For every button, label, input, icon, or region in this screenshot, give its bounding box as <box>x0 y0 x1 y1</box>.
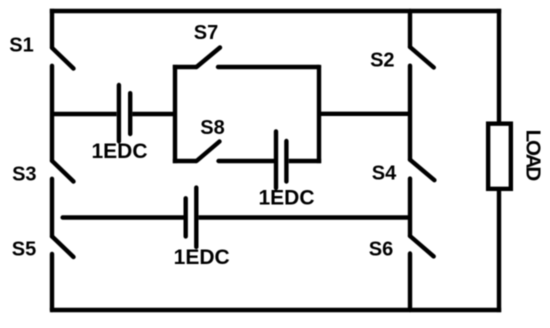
wire bottom rail <box>50 308 501 312</box>
switch S4 blade <box>410 160 434 181</box>
svg-text:S4: S4 <box>372 163 397 185</box>
capacitor C3 plate short <box>183 198 187 236</box>
switch S2 blade <box>410 47 434 68</box>
wire S8 branch right segment (capacitor to loop) <box>289 159 321 163</box>
wire S2 column upper (top rail to S2) <box>408 11 412 47</box>
wire S7 branch right segment <box>218 65 319 69</box>
switch S8 blade <box>197 142 220 162</box>
wire column lower (S6 to bottom rail) <box>408 254 412 311</box>
capacitor C2 plate long <box>274 131 278 188</box>
wire S7 branch left segment <box>173 65 197 69</box>
svg-text:1EDC: 1EDC <box>258 187 314 210</box>
switch S7 blade <box>197 48 221 68</box>
wire S8 branch middle segment (to capacitor) <box>219 159 274 163</box>
wire capacitor C1 to middle loop <box>132 112 175 116</box>
switch S3 blade <box>52 161 74 182</box>
capacitor C1 plate short <box>128 93 132 134</box>
wire left rail to capacitor C1 <box>52 112 117 116</box>
wire column between S4 and S6 <box>408 179 412 236</box>
svg-text:S1: S1 <box>9 35 33 57</box>
switch S6 blade <box>410 236 434 256</box>
svg-text:S5: S5 <box>12 238 36 260</box>
wire right rail lower (LOAD to bottom) <box>497 189 501 312</box>
switch S5 blade <box>52 236 74 257</box>
wire column between S2 and S4 <box>408 66 412 160</box>
resistor LOAD box <box>488 124 511 189</box>
wire middle loop output tap to S2 column <box>319 112 410 116</box>
wire middle loop right vertical <box>317 65 321 163</box>
capacitor C2 plate short <box>284 141 288 182</box>
wire left rail lower (S5 to bottom) <box>50 254 54 310</box>
svg-text:S2: S2 <box>370 50 394 72</box>
svg-text:LOAD: LOAD <box>522 130 545 181</box>
svg-text:S3: S3 <box>12 164 36 186</box>
capacitor C3 plate long <box>194 188 198 247</box>
svg-text:1EDC: 1EDC <box>91 140 147 163</box>
svg-text:S6: S6 <box>369 239 393 261</box>
svg-text:S8: S8 <box>200 117 224 139</box>
svg-text:1EDC: 1EDC <box>174 246 230 269</box>
wire top rail <box>50 9 501 13</box>
wire middle loop left vertical <box>173 65 177 163</box>
wire bottom feed right segment (to S4/S6 column) <box>199 215 410 219</box>
wire left rail upper (to S1) <box>50 9 54 48</box>
wire left rail between S3 and S5 <box>50 179 54 237</box>
wire bottom feed left segment <box>63 215 184 219</box>
switch S1 blade <box>52 48 74 69</box>
capacitor C1 plate long <box>117 85 121 141</box>
wire S8 branch left segment <box>173 159 197 163</box>
wire right rail upper (top to LOAD) <box>497 9 501 123</box>
wire left rail between S1 and S3 <box>50 66 54 161</box>
svg-text:S7: S7 <box>194 22 218 44</box>
